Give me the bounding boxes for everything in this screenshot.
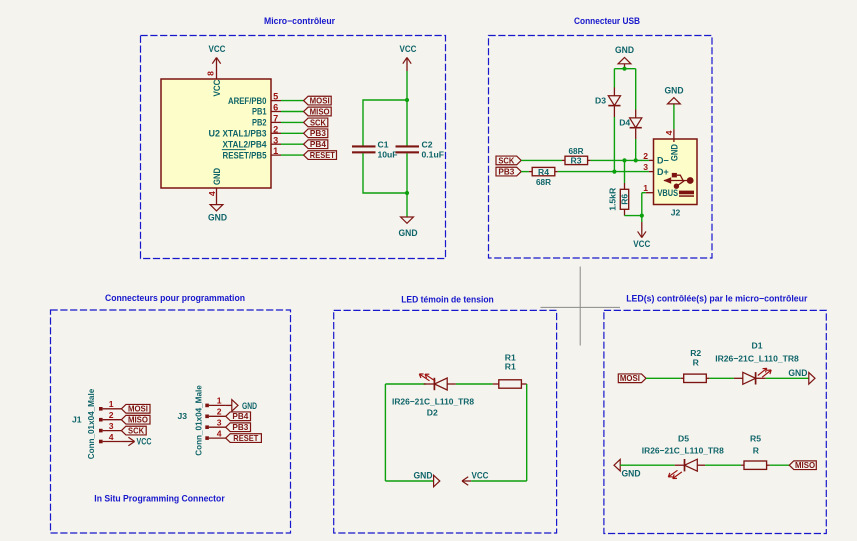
svg-text:68R: 68R	[536, 177, 552, 187]
svg-text:PB3: PB3	[310, 129, 326, 138]
svg-text:PB4: PB4	[232, 412, 248, 421]
svg-text:MISO: MISO	[795, 461, 816, 470]
svg-text:D4: D4	[619, 118, 630, 128]
svg-text:GND: GND	[615, 45, 634, 55]
svg-text:MISO: MISO	[310, 107, 331, 116]
svg-text:RESET: RESET	[310, 151, 335, 160]
svg-text:GND: GND	[212, 168, 222, 185]
svg-text:VCC: VCC	[212, 79, 222, 96]
svg-text:5: 5	[273, 92, 278, 102]
svg-text:J2: J2	[671, 208, 681, 218]
svg-text:3: 3	[109, 421, 114, 431]
svg-text:J1: J1	[72, 415, 82, 425]
svg-text:R1: R1	[505, 362, 516, 372]
svg-text:8: 8	[205, 71, 215, 76]
svg-text:PB3: PB3	[232, 423, 248, 432]
svg-text:PB1: PB1	[252, 107, 267, 117]
svg-text:3: 3	[273, 135, 278, 145]
svg-text:VCC: VCC	[633, 239, 650, 249]
svg-text:GND: GND	[665, 86, 684, 96]
svg-text:XTAL2/PB4: XTAL2/PB4	[223, 139, 267, 149]
svg-text:SCK: SCK	[498, 156, 514, 165]
svg-text:GND: GND	[208, 212, 227, 222]
svg-text:GND: GND	[242, 401, 257, 411]
svg-text:Connecteurs pour programmation: Connecteurs pour programmation	[105, 293, 245, 303]
svg-text:1: 1	[643, 183, 648, 193]
svg-text:GND: GND	[399, 228, 418, 238]
svg-text:D5: D5	[678, 434, 689, 444]
svg-text:1: 1	[273, 146, 278, 156]
svg-text:MOSI: MOSI	[128, 405, 148, 414]
svg-text:VCC: VCC	[472, 471, 489, 481]
svg-text:PB2: PB2	[252, 118, 267, 128]
svg-text:LED témoin de tension: LED témoin de tension	[401, 294, 494, 304]
svg-text:R: R	[693, 357, 700, 367]
svg-text:XTAL1/PB3: XTAL1/PB3	[223, 129, 267, 139]
svg-text:IR26−21C_L110_TR8: IR26−21C_L110_TR8	[392, 396, 474, 406]
svg-text:Connecteur USB: Connecteur USB	[574, 16, 640, 26]
svg-text:D−: D−	[657, 156, 669, 166]
svg-text:2: 2	[109, 410, 114, 420]
svg-text:R3: R3	[571, 156, 582, 166]
svg-text:AREF/PB0: AREF/PB0	[228, 96, 267, 106]
svg-text:4: 4	[207, 191, 217, 196]
svg-text:R5: R5	[750, 434, 761, 444]
svg-text:MOSI: MOSI	[620, 374, 640, 383]
svg-text:SCK: SCK	[128, 427, 144, 436]
svg-text:RESET: RESET	[233, 434, 258, 443]
svg-text:GND: GND	[670, 144, 680, 161]
svg-text:D+: D+	[657, 167, 669, 177]
svg-text:GND: GND	[622, 469, 641, 479]
svg-text:D3: D3	[595, 96, 606, 106]
svg-text:MISO: MISO	[128, 416, 149, 425]
svg-text:PB3: PB3	[498, 168, 514, 177]
svg-text:R2: R2	[690, 348, 701, 358]
svg-text:2: 2	[273, 124, 278, 134]
svg-text:0.1uF: 0.1uF	[422, 150, 444, 160]
svg-text:4: 4	[664, 130, 674, 135]
svg-text:2: 2	[643, 151, 648, 161]
svg-text:PB4: PB4	[310, 140, 326, 149]
svg-text:IR26−21C_L110_TR8: IR26−21C_L110_TR8	[642, 445, 724, 455]
svg-text:R: R	[753, 445, 760, 455]
svg-text:SCK: SCK	[310, 118, 326, 127]
svg-text:4: 4	[109, 432, 114, 442]
svg-text:1: 1	[217, 396, 222, 406]
svg-text:In Situ Programming Connector: In Situ Programming Connector	[94, 494, 225, 504]
svg-text:68R: 68R	[569, 146, 585, 156]
svg-text:Conn_01x04_Male: Conn_01x04_Male	[194, 385, 204, 456]
svg-text:10uF: 10uF	[378, 150, 398, 160]
svg-text:VCC: VCC	[209, 44, 226, 54]
svg-text:VBUS: VBUS	[658, 188, 679, 198]
svg-text:7: 7	[273, 114, 278, 124]
svg-text:1.5kR: 1.5kR	[608, 187, 618, 211]
svg-text:GND: GND	[788, 368, 807, 378]
svg-text:2: 2	[217, 407, 222, 417]
svg-text:RESET/PB5: RESET/PB5	[223, 150, 267, 160]
svg-text:Conn_01x04_Male: Conn_01x04_Male	[86, 389, 96, 460]
svg-text:U2: U2	[208, 129, 220, 139]
svg-text:D2: D2	[427, 407, 438, 417]
svg-text:D1: D1	[752, 341, 763, 351]
svg-text:4: 4	[217, 428, 222, 438]
svg-text:1: 1	[109, 399, 114, 409]
svg-text:VCC: VCC	[137, 437, 152, 447]
svg-text:Micro−contrôleur: Micro−contrôleur	[264, 16, 335, 26]
svg-text:3: 3	[643, 162, 648, 172]
svg-text:R4: R4	[538, 167, 549, 177]
svg-text:GND: GND	[414, 471, 433, 481]
svg-text:VCC: VCC	[400, 44, 417, 54]
svg-text:R6: R6	[620, 194, 630, 205]
svg-text:MOSI: MOSI	[310, 97, 330, 106]
svg-text:J3: J3	[177, 411, 187, 421]
svg-text:IR26−21C_L110_TR8: IR26−21C_L110_TR8	[715, 353, 799, 363]
svg-text:6: 6	[273, 103, 278, 113]
svg-text:3: 3	[217, 418, 222, 428]
svg-text:C1: C1	[378, 140, 389, 150]
svg-text:LED(s) contrôlée(s) par le mic: LED(s) contrôlée(s) par le micro−contrôl…	[626, 293, 808, 303]
svg-text:C2: C2	[422, 140, 433, 150]
